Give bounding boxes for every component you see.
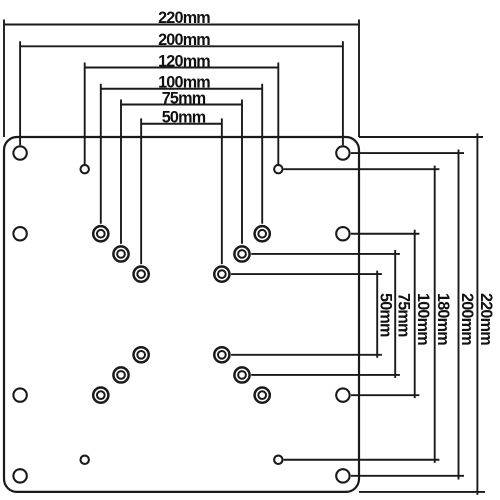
dim 100mm top right extension xyxy=(261,84,263,224)
dim 220mm top right extension xyxy=(358,20,360,138)
corner hole bottom-left xyxy=(13,469,26,482)
dim 75mm top line xyxy=(121,104,242,106)
vesa75 ring hole bottom-left xyxy=(113,367,128,382)
dim 200mm top left extension xyxy=(19,41,21,145)
corner hole top-right xyxy=(336,146,349,159)
vesa75 ring hole bottom-right xyxy=(234,367,249,382)
svg-text:75mm: 75mm xyxy=(162,89,206,107)
dim 200mm right bottom reference xyxy=(351,475,464,477)
vesa50 ring hole top-right xyxy=(214,267,229,282)
svg-text:100mm: 100mm xyxy=(414,293,432,345)
svg-text:200mm: 200mm xyxy=(158,31,210,49)
dim 220mm top left extension xyxy=(3,20,5,138)
dim 75mm top right extension xyxy=(241,100,243,244)
small hole top-left xyxy=(81,165,89,173)
dim 220mm right top reference xyxy=(359,136,483,138)
svg-text:220mm: 220mm xyxy=(158,9,210,27)
dim 200mm top right extension xyxy=(342,41,344,145)
dim 180mm right top reference xyxy=(284,168,440,170)
svg-text:50mm: 50mm xyxy=(377,293,395,337)
vesa75 ring hole top-right xyxy=(234,246,249,261)
mid hole left lower xyxy=(13,388,26,401)
dim 100mm right vertical line xyxy=(414,230,416,398)
dim 75mm right bottom reference xyxy=(251,374,400,376)
vesa100 ring hole bottom-left xyxy=(93,388,108,403)
vesa100 ring hole top-right xyxy=(255,226,270,241)
dim 180mm right bottom reference xyxy=(284,459,440,461)
vesa50 ring hole bottom-left xyxy=(134,347,149,362)
dim 220mm top line xyxy=(4,24,359,26)
svg-text:220mm: 220mm xyxy=(477,293,495,345)
corner hole top-left xyxy=(13,146,26,159)
vesa100 ring hole top-left xyxy=(93,226,108,241)
dim 75mm right vertical line xyxy=(394,250,396,378)
vesa50 ring hole bottom-right xyxy=(214,347,229,362)
dim 220mm right vertical line xyxy=(476,133,478,495)
mid hole right upper xyxy=(336,227,349,240)
dim 220mm right bottom reference xyxy=(359,491,485,493)
svg-text:180mm: 180mm xyxy=(434,293,452,345)
small hole bottom-left xyxy=(81,456,89,464)
dim 100mm right top reference xyxy=(351,233,420,235)
mid hole right lower xyxy=(336,388,349,401)
dim 75mm top left extension xyxy=(120,100,122,244)
dim 50mm top right extension xyxy=(221,118,223,264)
dim 50mm right top reference xyxy=(231,273,382,275)
vesa75 ring hole top-left xyxy=(113,246,128,261)
svg-text:120mm: 120mm xyxy=(158,52,210,70)
vesa50 ring hole top-left xyxy=(134,267,149,282)
dim 50mm right bottom reference xyxy=(231,354,382,356)
dim 75mm right top reference xyxy=(251,253,400,255)
dim 100mm top left extension xyxy=(100,84,102,224)
dim 50mm top left extension xyxy=(140,118,142,264)
vesa100 ring hole bottom-right xyxy=(255,388,270,403)
plate outline xyxy=(4,137,359,492)
dim 50mm top line xyxy=(141,123,222,125)
dim 120mm top line xyxy=(85,67,279,69)
svg-text:200mm: 200mm xyxy=(458,293,476,345)
corner hole bottom-right xyxy=(336,469,349,482)
dim 120mm top right extension xyxy=(277,63,279,165)
dim 50mm right vertical line xyxy=(376,271,378,358)
dim 120mm top left extension xyxy=(84,63,86,165)
mid hole left upper xyxy=(13,227,26,240)
dim 100mm right bottom reference xyxy=(351,394,420,396)
svg-text:75mm: 75mm xyxy=(395,293,413,337)
dim 100mm top line xyxy=(101,88,262,90)
dim 200mm right vertical line xyxy=(458,150,460,480)
dim 200mm top line xyxy=(20,45,343,47)
svg-text:50mm: 50mm xyxy=(162,109,206,127)
dim 200mm right top reference xyxy=(351,152,464,154)
dim 180mm right vertical line xyxy=(434,166,436,463)
small hole top-right xyxy=(274,165,282,173)
small hole bottom-right xyxy=(274,456,282,464)
